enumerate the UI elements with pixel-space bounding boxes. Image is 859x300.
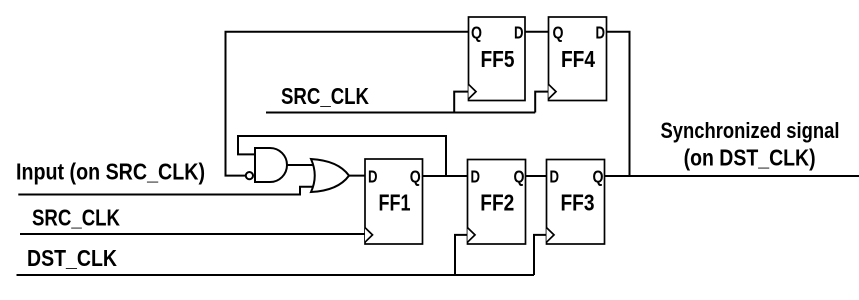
svg-text:Q: Q — [593, 167, 604, 187]
flip-flop FF3 box — [547, 160, 605, 245]
svg-text:D: D — [550, 167, 560, 187]
flip-flop FF2 clock triangle — [468, 228, 476, 243]
svg-text:FF3: FF3 — [561, 190, 595, 216]
svg-text:Q: Q — [410, 167, 421, 187]
svg-text:D: D — [368, 167, 378, 187]
wire FF2.Q to FF3.D — [525, 175, 548, 177]
wire FF5.Q feedback to NAND inverted input (top long wire + vertical) — [226, 32, 469, 176]
flip-flop FF4 box — [549, 17, 607, 101]
flip-flop FF1 box — [365, 159, 423, 244]
flip-flop FF4 clock triangle — [549, 84, 557, 99]
svg-text:Q: Q — [471, 23, 482, 43]
svg-text:Input (on SRC_CLK): Input (on SRC_CLK) — [16, 159, 205, 185]
svg-text:FF5: FF5 — [481, 46, 515, 72]
wire FF1.Q feedback to AND top input — [238, 136, 446, 176]
flip-flop FF5 clock triangle — [469, 84, 477, 99]
wire FF3.Q to right edge output — [604, 175, 859, 177]
flip-flop FF2 box — [468, 160, 526, 245]
wire SRC_CLK to FF4 clock — [535, 92, 549, 113]
wire FF5.D to FF4.Q — [524, 31, 550, 33]
wire FF4.D from output line (vertical riser) — [606, 32, 630, 176]
wire DST_CLK line — [17, 274, 535, 276]
svg-text:SRC_CLK: SRC_CLK — [32, 204, 120, 230]
wire FF1.Q to FF2.D — [422, 175, 469, 177]
svg-text:D: D — [471, 167, 481, 187]
svg-text:D: D — [596, 23, 606, 43]
svg-text:D: D — [514, 23, 524, 43]
and-gate G1 (AND with inverted input) — [255, 148, 287, 182]
wire Input line to OR bottom input — [18, 187, 320, 195]
wire AND output to OR top input — [287, 164, 320, 166]
inverter bubble on G1 lower input — [246, 172, 253, 179]
svg-text:Q: Q — [553, 23, 564, 43]
svg-text:(on DST_CLK): (on DST_CLK) — [684, 144, 816, 170]
wire SRC_CLK top line — [266, 112, 535, 114]
svg-text:SRC_CLK: SRC_CLK — [281, 83, 369, 109]
wire SRC_CLK to FF5 clock — [454, 92, 469, 113]
svg-text:Synchronized signal: Synchronized signal — [661, 118, 840, 143]
svg-text:FF1: FF1 — [379, 190, 411, 216]
wire SRC_CLK mid line to FF1 clock — [20, 233, 366, 235]
svg-text:FF2: FF2 — [480, 190, 514, 216]
flip-flop FF5 box — [469, 17, 526, 101]
flip-flop FF3 clock triangle — [547, 228, 555, 243]
svg-text:Q: Q — [514, 167, 525, 187]
svg-text:DST_CLK: DST_CLK — [27, 245, 117, 271]
or-gate G2 — [311, 159, 349, 192]
wire DST_CLK to FF3 clock — [534, 235, 548, 275]
svg-text:FF4: FF4 — [561, 46, 595, 72]
wire OR output to FF1.D — [348, 175, 366, 177]
flip-flop FF1 clock triangle — [365, 228, 373, 243]
wire DST_CLK to FF2 clock — [455, 235, 469, 275]
